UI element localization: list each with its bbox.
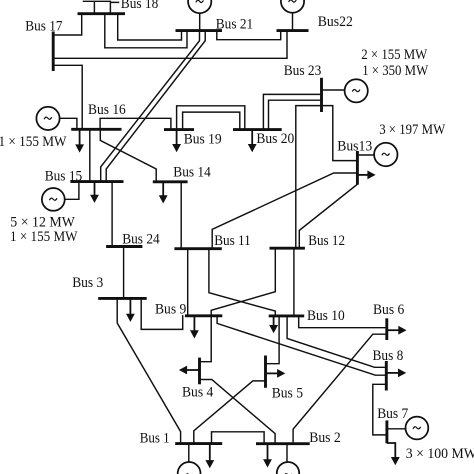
generator G13 tilde [382,153,390,155]
load arrow Bus 20 [248,130,257,153]
generator G16 tilde [44,117,52,119]
svg-text:Bus 1: Bus 1 [140,430,170,446]
bus Bus 17 [52,32,55,72]
wire generator to Bus 23 [322,89,345,91]
wire 3-9 [141,298,183,329]
generator G15 [42,188,65,211]
bus Bus 2 [256,442,310,445]
bus Bus 7 [385,420,388,443]
generator G16 [36,107,59,130]
svg-text:Bus 11: Bus 11 [214,233,251,249]
wire 20-23 circuit a [263,94,321,129]
wire 3-24 [123,247,125,299]
wire 15-16 [89,129,91,181]
wire 9-12 [211,248,275,316]
svg-text:1 × 350 MW: 1 × 350 MW [362,63,428,79]
wire 4-9 [200,316,212,362]
svg-text:Bus 16: Bus 16 [88,102,126,118]
wire 15-24 [111,182,113,247]
bus Bus 3 [98,297,147,300]
wire 2-6 [293,334,387,444]
wire 2-4 [200,380,276,444]
generator G22 tilde [289,0,297,2]
svg-text:Bus 15: Bus 15 [45,169,82,185]
wire 8-9 [217,316,386,375]
generator G21 tilde [196,0,204,2]
wire generator to Bus 22 [292,13,294,31]
svg-text:3 × 100 MW: 3 × 100 MW [406,446,474,462]
load arrow Bus 3 [126,298,135,322]
bus Bus 21 [176,29,223,32]
bus Bus 6 [385,318,388,340]
load arrow Bus 13 [357,171,375,180]
bus Bus 10 [269,314,305,317]
wire 17-18 [53,14,81,35]
generator G21 [188,0,211,13]
bus Bus 15 [70,180,123,183]
wire 12-13 [299,185,357,249]
wire 21-22 [217,31,281,40]
wire generator to Bus 16 [60,118,77,129]
wire 1-2 [212,432,265,444]
bus Bus 12 [270,247,305,250]
generator G23 [345,79,368,102]
bus Bus 4 [198,358,201,385]
bus Bus 14 [153,180,188,183]
svg-text:Bus 2: Bus 2 [309,430,341,446]
wire generator to Bus 2 [286,444,288,462]
load arrow Bus 2 [263,444,272,468]
svg-text:Bus 21: Bus 21 [216,16,253,32]
generator G23 tilde [352,90,360,92]
svg-text:Bus 17: Bus 17 [25,19,62,35]
svg-text:Bus 20: Bus 20 [256,131,294,147]
bus Bus 18 [78,12,126,15]
wire 1-3 [117,298,180,443]
wire generator to Bus 21 [199,13,201,30]
wire 15-21 circuit a [101,31,200,182]
load arrow Bus 6 [387,326,407,335]
wire 16-17 [53,65,82,129]
bus Bus 1 [175,442,222,445]
bus Bus 22 [277,29,309,32]
load arrow Bus 4 [179,366,200,375]
svg-text:Bus 19: Bus 19 [184,132,222,148]
bus Bus 24 [106,245,142,248]
svg-text:Bus 18: Bus 18 [121,0,159,12]
wire generator to Bus 13 [357,154,374,156]
wire 7-8 [373,384,387,435]
generator G22 [281,0,304,13]
svg-text:Bus13: Bus13 [337,139,372,155]
svg-text:Bus 23: Bus 23 [284,63,322,79]
load arrow Bus 14 [159,182,168,204]
svg-text:Bus 8: Bus 8 [373,348,404,364]
generator G7 [406,417,429,440]
wire 13-23 [322,106,358,161]
bus Bus 19 [164,128,194,131]
bus Bus 13 [356,151,359,185]
wire 20-23 circuit b [269,100,322,129]
svg-text:Bus 5: Bus 5 [272,385,303,401]
wire generator to Bus 15 [65,182,79,200]
wire 10-11 [209,249,275,316]
wire 11-13 [212,173,357,249]
svg-text:Bus 12: Bus 12 [308,233,345,249]
svg-text:2 × 155 MW: 2 × 155 MW [361,47,427,63]
wire 5-10 [266,316,280,364]
generator G1 [178,462,201,474]
load arrow Bus 15 [90,182,99,203]
wire 18-21 circuit b [105,14,187,48]
load arrow Bus 9 [190,316,199,339]
load arrow Bus 8 [386,369,406,378]
svg-text:Bus 10: Bus 10 [307,308,345,324]
generator G15 tilde [49,198,57,200]
svg-text:Bus 7: Bus 7 [377,406,408,422]
bus Bus 23 [320,78,323,112]
wire 19-20 circuit a [177,106,245,130]
wire 8-10 [287,316,386,367]
wire 18-21 circuit a [118,14,182,40]
wire 10-12 [293,248,295,316]
load arrow Bus 10 [269,316,278,333]
load arrow Bus 16 [75,129,84,152]
load arrow Bus 1 [205,444,214,469]
svg-text:1 × 155 MW: 1 × 155 MW [10,229,78,245]
clipped feeder stub above Bus 18 [84,1,119,13]
svg-text:1 × 155 MW: 1 × 155 MW [0,134,67,150]
svg-text:Bus 6: Bus 6 [373,302,404,318]
bus Bus 9 [185,314,222,317]
generator G13 [374,143,397,166]
svg-text:Bus 3: Bus 3 [72,275,103,291]
svg-text:Bus 14: Bus 14 [173,164,211,180]
svg-text:Bus 24: Bus 24 [122,232,160,248]
svg-text:Bus 9: Bus 9 [155,301,186,317]
wire 9-11 [187,249,189,316]
wire 12-23 [296,106,322,249]
wire 15-21 circuit b [106,31,205,182]
bus Bus 8 [385,361,388,391]
bus Bus 11 [174,247,221,250]
wire 11-14 [180,182,182,249]
load arrow Bus 5 [266,369,286,378]
wire 17-22 [53,31,287,59]
bus Bus 16 [71,128,121,131]
bus Bus 20 [233,128,282,131]
load arrow Bus 7 [387,443,400,465]
generator G2 [277,462,299,474]
wire 14-16 [100,129,156,182]
wire generator to Bus 1 [188,444,190,462]
svg-text:3 × 197 MW: 3 × 197 MW [379,122,445,138]
svg-text:Bus22: Bus22 [318,14,353,30]
bus Bus 5 [264,356,267,388]
generator G7 tilde [413,427,421,429]
wire 16-19 [100,118,171,129]
load arrow Bus 19 [172,130,181,153]
svg-text:Bus 4: Bus 4 [182,385,213,401]
wire 1-5 [194,381,266,444]
wire 19-20 circuit b [183,112,240,130]
wire 6-10 [299,316,387,328]
wire generator to Bus 7 [387,428,406,430]
